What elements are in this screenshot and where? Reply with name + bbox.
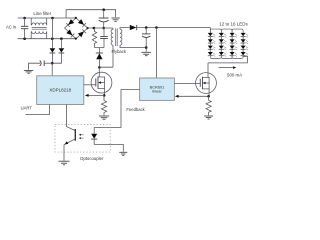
node X-cap bottom (23, 37, 26, 40)
LED D3 (208, 46, 216, 52)
bridge rectifier D1-D4 (65, 18, 88, 39)
arrow 500 mA current (219, 66, 237, 69)
resistor R CS (101, 95, 106, 115)
capacitor C snubber (100, 28, 108, 48)
LED D6 (219, 39, 227, 45)
node bridge top vertex (75, 17, 77, 19)
opto light arrows (79, 134, 84, 139)
resistor R snubber (92, 28, 96, 48)
capacitor CX1 (21, 18, 28, 39)
capacitor C out (polarized) (142, 28, 150, 48)
wire LED return bus (208, 56, 247, 63)
wire HV node to XDPL (51, 63, 53, 76)
node Q1 source (103, 94, 106, 97)
diode opto LED (91, 128, 123, 152)
LED D15 (241, 46, 249, 52)
wire sec return stub (145, 48, 147, 52)
node BCR supply tap (155, 26, 158, 29)
node bridge bottom vertex (75, 38, 77, 40)
wire BCR601 sense arrow (175, 95, 209, 98)
node output cap (145, 26, 148, 29)
capacitor C VCC (polarized) (29, 60, 53, 69)
svg-text:linear: linear (152, 89, 162, 94)
LED D14 (241, 39, 249, 45)
ground Q1 CS resistor (99, 116, 109, 119)
node filter out bottom (51, 37, 54, 40)
wire AC line top (18, 17, 76, 19)
LED D8 (219, 52, 227, 57)
LED D9 (230, 33, 238, 39)
wire LED top link 2 (221, 29, 232, 33)
node snubber R (93, 27, 96, 30)
wire DC bus (88, 27, 113, 29)
svg-text:XDPL8218: XDPL8218 (49, 88, 71, 93)
svg-text:UART: UART (21, 105, 33, 110)
svg-text:12 to 16 LEDs: 12 to 16 LEDs (219, 22, 248, 27)
transistor Q1 MOSFET (91, 72, 112, 93)
wire LED bottom link 2 (221, 56, 232, 59)
node HV cap junction (51, 62, 54, 65)
inductor L1 common-mode choke (31, 18, 47, 39)
node Q2 source (207, 95, 210, 98)
svg-text:AC in: AC in (6, 24, 17, 29)
ground opto emitter (59, 161, 70, 165)
IC U2 BCR601 (140, 78, 175, 100)
node bridge right vertex (87, 27, 89, 29)
node earth rail cap (102, 8, 105, 11)
wire primary bottom to drain node (99, 45, 113, 67)
wire BCR601 gate drive (174, 83, 195, 85)
LED D7 (219, 46, 227, 52)
wire snubber bottom (95, 48, 105, 53)
wire CS feedback arrow (85, 94, 104, 97)
node bus bulk cap (102, 27, 105, 30)
wire Q1 source to CS node (104, 89, 106, 96)
wire output rail (137, 27, 211, 29)
diode D clamp (points up) (96, 53, 103, 67)
wire UART (25, 105, 49, 115)
LED D1 (208, 33, 216, 39)
svg-text:Flyback: Flyback (112, 49, 127, 54)
ground secondary (output cap) (141, 52, 151, 55)
wire AC line bottom (18, 38, 76, 40)
diode D5 HV startup left (50, 18, 56, 63)
optocoupler dashed box (55, 124, 110, 152)
transistor opto phototransistor (64, 105, 75, 161)
transistor Q2 MOSFET (196, 73, 217, 94)
wire Q2 source (208, 89, 210, 96)
wire Y-cap riser to earth rail (66, 10, 116, 18)
ground HV cap (24, 70, 33, 73)
ground opto LED return (119, 152, 127, 155)
svg-text:Optocoupler: Optocoupler (80, 156, 104, 161)
wire LED top link 1 (210, 29, 221, 33)
wire LED top link 3 (232, 29, 243, 33)
wire Q2 drain riser (207, 63, 209, 78)
transformer T1 flyback (111, 28, 146, 48)
resistor R sense Q2 (206, 96, 211, 115)
diode D6 HV startup right (52, 39, 64, 64)
ground Q2 resistor (204, 116, 213, 119)
node filter out top (51, 17, 54, 20)
ground earth (line filter) (111, 18, 119, 22)
wire LED bottom link 3 (232, 56, 243, 59)
node HV diode tap (60, 37, 63, 40)
capacitor C bulk (bus to earth) (99, 10, 109, 28)
diode D out (secondary rectifier) (130, 25, 137, 30)
LED D13 (241, 33, 249, 39)
LED D4 (208, 52, 216, 57)
IC U1 XDPL8218 (37, 76, 84, 105)
LED D11 (230, 46, 238, 52)
wire BCR601 feedback out to optocoupler (94, 90, 139, 128)
wire Q1 gate (84, 84, 92, 86)
svg-text:Feedback: Feedback (126, 107, 145, 112)
LED D16 (241, 52, 249, 57)
node X-cap top (23, 17, 26, 20)
LED D2 (208, 39, 216, 45)
node drain clamp junction (98, 66, 101, 69)
node secondary return (145, 46, 148, 49)
wire LED bottom link 1 (210, 56, 221, 59)
LED D5 (219, 33, 227, 39)
wire LED feed (209, 28, 211, 33)
wire BCR601 supply (156, 28, 158, 79)
LED D10 (230, 39, 238, 45)
svg-text:Line filter: Line filter (33, 11, 51, 16)
svg-text:500 mA: 500 mA (227, 73, 242, 78)
wire drain node to Q1 (98, 67, 100, 77)
LED D12 (230, 52, 238, 57)
